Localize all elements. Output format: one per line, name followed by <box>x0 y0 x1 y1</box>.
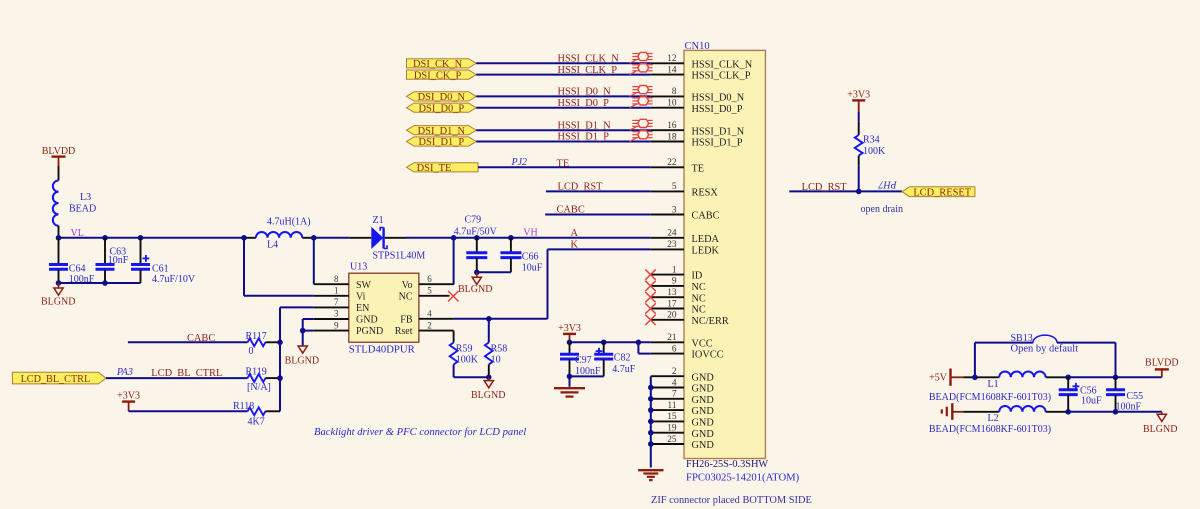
svg-text:21: 21 <box>667 333 677 343</box>
svg-text:BEAD: BEAD <box>69 204 96 215</box>
svg-text:LEDA: LEDA <box>692 234 720 245</box>
CN10 pin 8 HSSI_D0_N <box>651 87 745 103</box>
svg-text:13: 13 <box>667 288 677 298</box>
svg-text:DSI_D1_P: DSI_D1_P <box>419 137 465 148</box>
net label HSSI_D1_N <box>558 120 612 131</box>
wire CABC (right) <box>545 214 651 216</box>
svg-text:8: 8 <box>334 274 339 284</box>
svg-text:R58: R58 <box>491 343 508 354</box>
svg-text:PGND: PGND <box>356 326 383 337</box>
svg-text:Backlight driver & PFC connect: Backlight driver & PFC connector for LCD… <box>314 427 526 438</box>
solder bridge SB13 <box>975 333 1116 377</box>
svg-text:NC: NC <box>692 305 706 316</box>
svg-text:DSI_D1_N: DSI_D1_N <box>418 126 466 137</box>
svg-text:GND: GND <box>692 429 715 440</box>
diff pair directive HSSI_CLK_P <box>630 64 653 75</box>
capacitor C97 <box>560 342 601 377</box>
svg-text:4K7: 4K7 <box>248 417 265 428</box>
comment open drain <box>861 204 904 215</box>
resistor R58 <box>485 319 507 377</box>
cross-ref PA3 <box>116 367 133 378</box>
svg-text:A: A <box>571 228 579 239</box>
svg-text:LCD_BL_CTRL: LCD_BL_CTRL <box>151 368 222 379</box>
svg-text:GND: GND <box>692 384 715 395</box>
comment backlight driver <box>314 427 526 438</box>
svg-text:GND: GND <box>692 418 715 429</box>
CN10 pin 4 GND <box>651 378 715 394</box>
wire CABC (left) <box>128 341 248 343</box>
svg-text:4.7uF/10V: 4.7uF/10V <box>152 274 196 285</box>
junction C79 bottom <box>474 270 480 276</box>
U13 pin 2 Rset <box>395 320 454 337</box>
CN10 pin 3 CABC <box>651 205 720 221</box>
junction Vo branch <box>451 235 457 241</box>
resistor R117 <box>246 331 281 357</box>
CN10 pin 5 RESX <box>651 182 719 198</box>
no-connect X on CN10 pin 13 <box>645 292 655 302</box>
ground BLGND below U13 <box>285 346 319 367</box>
wire DSI_D0_N <box>476 95 651 97</box>
svg-text:NC: NC <box>692 282 706 293</box>
svg-text:FH26-25S-0.3SHW: FH26-25S-0.3SHW <box>686 459 768 470</box>
svg-text:HSSI_D0_N: HSSI_D0_N <box>692 93 745 104</box>
wire DSI_CK_N <box>476 62 651 64</box>
junction GND bus y398 <box>648 396 654 402</box>
junction IOVCC <box>636 340 642 346</box>
svg-text:GND: GND <box>692 440 715 451</box>
svg-text:5: 5 <box>427 286 432 296</box>
svg-text:BLGND: BLGND <box>1143 424 1177 435</box>
ground BLGND below R58 <box>471 377 505 401</box>
svg-text:L4: L4 <box>267 240 278 251</box>
svg-text:1: 1 <box>334 286 339 296</box>
ground earth below C97 <box>554 388 585 396</box>
ground BLGND (bottom right) <box>1143 412 1177 435</box>
diode Z1 STPS1L40M <box>371 215 425 262</box>
U13 pin 5 NC <box>399 286 450 303</box>
svg-text:[N/A]: [N/A] <box>247 382 271 393</box>
resistor R119 <box>246 366 281 393</box>
CN10 pin 12 HSSI_CLK_N <box>651 54 753 70</box>
wire IOVCC branch <box>638 342 650 353</box>
svg-text:HSSI_D1_N: HSSI_D1_N <box>692 126 745 137</box>
svg-text:HSSI_D1_P: HSSI_D1_P <box>558 132 610 143</box>
svg-text:4.7uH(1A): 4.7uH(1A) <box>267 217 311 228</box>
power port +3V3 (right) <box>847 90 870 112</box>
capacitor C55 <box>1106 377 1143 412</box>
diff pair directive HSSI_D1_P <box>630 131 653 142</box>
junction L4/SW <box>311 235 317 241</box>
wire GND/PGND to ground <box>303 319 314 346</box>
wire DSI_D1_P <box>476 141 651 143</box>
svg-text:LCD_BL_CTRL: LCD_BL_CTRL <box>21 374 91 385</box>
capacitor C63 <box>96 238 129 283</box>
wire LCD_RST (right) <box>789 190 902 192</box>
svg-text:NC: NC <box>399 291 413 302</box>
svg-text:C64: C64 <box>69 263 86 274</box>
svg-text:BEAD(FCM1608KF-601T03): BEAD(FCM1608KF-601T03) <box>929 424 1051 435</box>
svg-text:LCD_RST: LCD_RST <box>802 182 848 193</box>
svg-text:100K: 100K <box>456 355 479 366</box>
op-amp U13 STLD40DPUR body <box>349 262 419 356</box>
port DSI_D0_P <box>407 103 477 114</box>
svg-text:Z1: Z1 <box>373 215 384 226</box>
svg-text:+3V3: +3V3 <box>847 90 870 101</box>
junction C56 top <box>1065 375 1071 381</box>
svg-text:1: 1 <box>672 265 677 275</box>
wire +3V3 to R34 <box>858 112 860 135</box>
svg-text:ID: ID <box>692 271 703 282</box>
svg-text:14: 14 <box>667 65 677 75</box>
svg-text:PH7: PH7 <box>877 178 897 189</box>
wire to earth ground <box>569 376 571 386</box>
junction C79 <box>474 235 480 241</box>
power port BLVDD (right) <box>1145 357 1179 377</box>
svg-text:18: 18 <box>667 132 677 142</box>
wire DSI_D0_P <box>476 107 651 109</box>
wire L2 to C56 bottom <box>1046 411 1069 413</box>
net label VH <box>523 227 537 238</box>
power port chassis (left of L2) <box>942 403 964 420</box>
svg-text:IOVCC: IOVCC <box>692 350 724 361</box>
resistor R59 <box>450 331 479 378</box>
wire C97-C82 bottoms <box>570 375 604 377</box>
svg-text:10uF: 10uF <box>522 263 543 274</box>
connector CN10 body <box>684 41 765 459</box>
junction C97 bottom <box>567 374 573 380</box>
net label HSSI_D0_P <box>558 98 610 109</box>
wire DSI_TE <box>478 166 651 168</box>
svg-text:15: 15 <box>667 412 677 422</box>
svg-text:BLGND: BLGND <box>458 284 492 295</box>
CN10 pin 7 GND <box>651 390 715 406</box>
svg-text:TE: TE <box>557 159 570 170</box>
ground BLGND below C79 <box>458 272 492 295</box>
CN10 pin 11 GND <box>651 401 715 417</box>
CN10 pin 9 NC <box>651 277 706 293</box>
capacitor C82 <box>594 342 636 376</box>
junction Vi branch <box>241 235 247 241</box>
svg-text:25: 25 <box>667 435 677 445</box>
net label HSSI_D1_P <box>558 132 610 143</box>
wire +3V3 to R118 <box>129 410 248 412</box>
wire LCD_BL_CTRL <box>106 377 248 379</box>
svg-text:24: 24 <box>667 229 677 239</box>
comment ZIF connector <box>651 495 812 506</box>
wire to BLGND <box>1116 411 1162 413</box>
port DSI_CK_P <box>407 70 477 81</box>
wire C79-C66 bottoms <box>477 271 511 273</box>
svg-text:2: 2 <box>427 320 432 330</box>
inductor L4 <box>256 217 311 251</box>
U13 pin 1 Vi <box>314 286 366 303</box>
svg-text:HSSI_D0_N: HSSI_D0_N <box>558 87 612 98</box>
svg-text:6: 6 <box>427 274 432 284</box>
junction R58 bottom <box>486 375 491 380</box>
svg-text:9: 9 <box>672 277 677 287</box>
junction GND bus y387 <box>648 385 654 391</box>
svg-text:Rset: Rset <box>395 326 413 337</box>
U13 pin 3 GND <box>314 309 378 326</box>
svg-text:CN10: CN10 <box>685 41 710 52</box>
CN10 pin 16 HSSI_D1_N <box>651 121 745 137</box>
svg-text:GND: GND <box>692 372 715 383</box>
net label TE <box>557 159 570 170</box>
CN10 pin 14 HSSI_CLK_P <box>651 65 751 81</box>
wire Z1 to VH rail <box>385 237 651 239</box>
ground BLGND below C64 <box>41 283 75 308</box>
svg-text:NC: NC <box>692 293 706 304</box>
svg-text:2: 2 <box>672 367 677 377</box>
port DSI_D1_N <box>407 126 477 137</box>
junction PGND <box>300 328 306 334</box>
svg-text:BLGND: BLGND <box>41 297 75 308</box>
svg-text:HSSI_CLK_N: HSSI_CLK_N <box>692 59 753 70</box>
CN10 pin 24 LEDA <box>651 229 720 245</box>
inductor L1 <box>988 371 1046 390</box>
port LCD_BL_CTRL <box>12 372 106 385</box>
svg-text:PJ2: PJ2 <box>511 157 528 168</box>
ground earth below GND bus <box>638 470 663 480</box>
svg-text:0: 0 <box>249 346 254 357</box>
wire DSI_D1_N <box>476 129 651 131</box>
wire LCD_RST (left) <box>546 190 651 192</box>
net label HSSI_CLK_P <box>558 65 618 76</box>
wire VL rail <box>59 237 245 239</box>
junction at L3/C64 <box>56 235 62 241</box>
svg-text:FPC03025-14201(ATOM): FPC03025-14201(ATOM) <box>686 472 800 484</box>
svg-text:LCD_RST: LCD_RST <box>558 182 604 193</box>
net label LCD_RST (left) <box>558 182 604 193</box>
CN10 part number FPC03025 <box>686 472 800 484</box>
CN10 pin 22 TE <box>651 158 704 174</box>
net label HSSI_CLK_N <box>558 54 620 65</box>
U13 pin 4 FB <box>400 309 454 326</box>
resistor R118 <box>233 401 280 427</box>
wire R34 to LCD_RST <box>858 156 860 192</box>
svg-text:VH: VH <box>523 227 537 238</box>
svg-text:DSI_CK_P: DSI_CK_P <box>414 70 462 81</box>
wire C56 to C55 top <box>1068 376 1115 378</box>
wire Vo to VH rail <box>453 238 455 284</box>
svg-text:R34: R34 <box>863 135 880 146</box>
svg-text:C82: C82 <box>614 352 631 363</box>
svg-text:R119: R119 <box>246 366 267 377</box>
net label LCD_RST (right) <box>802 182 848 193</box>
diff pair directive HSSI_D1_N <box>630 119 653 130</box>
net label K <box>571 240 579 251</box>
svg-text:C61: C61 <box>152 263 169 274</box>
junction at C63 <box>102 235 108 241</box>
svg-text:3: 3 <box>672 205 677 215</box>
CN10 pin 15 GND <box>651 412 715 428</box>
svg-text:R118: R118 <box>233 401 254 412</box>
resistor R34 <box>855 135 886 157</box>
CN10 pin 23 LEDK <box>651 240 720 256</box>
svg-text:10uF: 10uF <box>1081 395 1102 406</box>
port DSI_D1_P <box>407 137 477 148</box>
junction C64 bottom <box>56 280 62 286</box>
svg-text:CABC: CABC <box>692 211 720 222</box>
cross-ref PJ2 <box>511 157 528 168</box>
wire Vi to VL rail <box>244 238 314 296</box>
svg-text:VCC: VCC <box>692 338 713 349</box>
U13 pin 9 PGND <box>314 320 383 337</box>
CN10 pin 6 IOVCC <box>651 344 724 360</box>
wire SW to L4 junction <box>313 238 315 284</box>
svg-text:8: 8 <box>672 87 677 97</box>
svg-text:C66: C66 <box>522 252 539 263</box>
svg-text:9: 9 <box>334 320 339 330</box>
svg-text:C79: C79 <box>465 215 482 226</box>
wire to BLVDD <box>1116 376 1162 378</box>
svg-text:L3: L3 <box>80 192 91 203</box>
diff pair directive HSSI_D0_P <box>630 97 653 108</box>
capacitor C64 <box>49 238 95 285</box>
wire L3 to VL rail <box>58 226 60 238</box>
U13 pin 7 EN <box>314 297 370 314</box>
junction GND bus y432 <box>648 430 654 436</box>
junction GND bus y444 <box>648 441 654 447</box>
no-connect X on CN10 pin 9 <box>645 281 655 291</box>
svg-text:Open by default: Open by default <box>1011 344 1079 355</box>
svg-text:4.7uF: 4.7uF <box>612 364 636 375</box>
junction C56 bottom <box>1065 409 1071 415</box>
svg-text:DSI_TE: DSI_TE <box>417 163 452 174</box>
svg-text:HSSI_D1_N: HSSI_D1_N <box>558 120 612 131</box>
svg-text:DSI_CK_N: DSI_CK_N <box>413 59 463 70</box>
svg-text:GND: GND <box>356 315 378 326</box>
net label CABC <box>187 333 215 344</box>
net label HSSI_D0_N <box>558 87 612 98</box>
svg-text:HSSI_D0_P: HSSI_D0_P <box>558 98 610 109</box>
junction +3V3/C97 <box>567 340 573 346</box>
U13 pin 8 SW <box>314 274 372 291</box>
CN10 pin 10 HSSI_D0_P <box>651 99 743 115</box>
svg-text:CABC: CABC <box>187 333 215 344</box>
svg-text:100nF: 100nF <box>575 366 601 377</box>
junction C63 bottom <box>102 280 108 286</box>
wire LEDK vertical to FB <box>547 249 549 318</box>
svg-text:HSSI_CLK_N: HSSI_CLK_N <box>558 54 620 65</box>
wire +5V to L1 <box>963 376 999 378</box>
svg-text:5: 5 <box>672 182 677 192</box>
svg-text:TE: TE <box>692 163 705 174</box>
svg-text:7: 7 <box>334 297 339 307</box>
svg-text:HSSI_D0_P: HSSI_D0_P <box>692 104 743 115</box>
wire GND bus <box>650 376 652 467</box>
svg-text:L2: L2 <box>988 413 999 424</box>
CN10 pin 25 GND <box>651 435 715 451</box>
wire junction to Z1 <box>314 237 372 239</box>
svg-text:10: 10 <box>667 99 677 109</box>
svg-text:LCD_RESET: LCD_RESET <box>913 187 971 198</box>
svg-text:C55: C55 <box>1127 391 1144 402</box>
svg-text:SW: SW <box>356 280 372 291</box>
inductor L2 <box>988 406 1046 424</box>
wire C56-C55 bottoms <box>1068 411 1115 413</box>
wire +3V3 rail to VCC <box>570 341 651 343</box>
junction C82 <box>601 340 607 346</box>
power port +3V3 (left) <box>117 391 140 412</box>
junction R34/LCD_RST <box>856 189 862 195</box>
svg-text:U13: U13 <box>350 262 367 273</box>
svg-text:DSI_D0_N: DSI_D0_N <box>418 92 466 103</box>
CN10 pin 2 GND <box>651 367 715 383</box>
diff pair directive HSSI_D0_N <box>630 86 653 97</box>
diff pair directive HSSI_CLK_N <box>630 52 653 63</box>
net label LCD_BL_CTRL <box>151 368 222 379</box>
capacitor C66 <box>500 238 542 274</box>
capacitor C56 <box>1059 377 1102 412</box>
power port +3V3 (middle) <box>558 323 581 342</box>
svg-text:100K: 100K <box>863 146 886 157</box>
svg-text:Vi: Vi <box>356 291 366 302</box>
CN10 pin 1 ID <box>651 265 703 281</box>
cross-ref PH7 (mirrored) <box>877 178 897 189</box>
svg-text:19: 19 <box>667 424 677 434</box>
junction FB/R58 <box>486 316 492 322</box>
svg-text:6: 6 <box>672 344 677 354</box>
svg-text:R59: R59 <box>456 343 473 354</box>
svg-text:16: 16 <box>667 121 677 131</box>
svg-text:11: 11 <box>668 401 677 411</box>
svg-text:BLGND: BLGND <box>471 390 505 401</box>
junction R117/bus <box>277 340 283 346</box>
CN10 pin 13 NC <box>651 288 706 304</box>
svg-text:GND: GND <box>692 406 715 417</box>
junction C55 top <box>1113 375 1119 381</box>
svg-text:12: 12 <box>667 54 677 64</box>
svg-text:NC/ERR: NC/ERR <box>692 316 729 327</box>
svg-text:STPS1L40M: STPS1L40M <box>373 251 426 262</box>
net label A <box>571 228 579 239</box>
junction C66 <box>508 235 514 241</box>
L2 value BEAD(FCM1608KF-601T03) <box>929 424 1051 435</box>
svg-text:20: 20 <box>667 311 677 321</box>
L1 value BEAD(FCM1608KF-601T03) <box>929 392 1051 403</box>
svg-text:23: 23 <box>667 240 677 250</box>
svg-text:100nF: 100nF <box>1116 401 1142 412</box>
svg-text:4: 4 <box>427 309 432 319</box>
svg-text:GND: GND <box>692 395 715 406</box>
svg-text:4: 4 <box>672 378 677 388</box>
wire L4 to junction <box>302 237 314 239</box>
svg-text:17: 17 <box>667 299 677 309</box>
port DSI_TE <box>407 163 479 174</box>
junction C55 bottom <box>1113 409 1119 415</box>
svg-text:LEDK: LEDK <box>692 246 720 257</box>
wire LEDK <box>548 248 651 250</box>
svg-text:4.7uF/50V: 4.7uF/50V <box>454 226 498 237</box>
wire R59-R58 bottoms <box>454 376 489 378</box>
CN10 pin 18 HSSI_D1_P <box>651 132 743 148</box>
svg-text:R117: R117 <box>246 331 267 342</box>
power port BLVDD (top left) <box>42 146 76 166</box>
port DSI_D0_N <box>407 92 477 103</box>
CN10 part number FH26 <box>686 459 768 470</box>
CN10 pin 20 NC/ERR <box>651 311 729 327</box>
svg-text:L1: L1 <box>988 379 999 390</box>
junction GND bus y421 <box>648 419 654 425</box>
svg-text:RESX: RESX <box>692 188 719 199</box>
wire L1 to C56 <box>1046 376 1069 378</box>
svg-text:STLD40DPUR: STLD40DPUR <box>349 344 416 356</box>
port LCD_RESET <box>902 187 975 199</box>
svg-text:7: 7 <box>672 390 677 400</box>
svg-text:CABC: CABC <box>557 205 585 216</box>
wire BLVDD to L3 <box>58 166 60 181</box>
